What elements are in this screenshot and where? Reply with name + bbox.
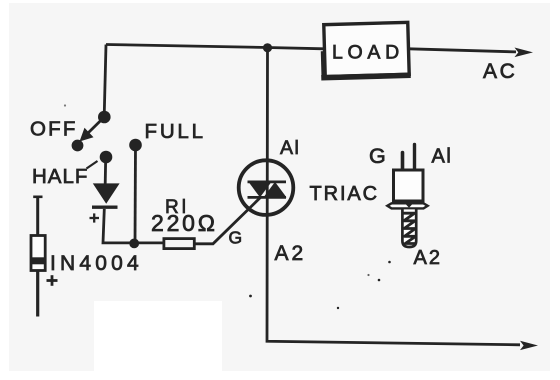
svg-text:G: G [229, 228, 243, 248]
svg-text:TRIAC: TRIAC [310, 183, 380, 205]
svg-text:A2: A2 [275, 242, 307, 265]
svg-text:A2: A2 [414, 247, 442, 269]
svg-text:HALF: HALF [32, 165, 88, 188]
svg-text:OFF: OFF [30, 117, 78, 140]
svg-text:Al: Al [280, 137, 300, 159]
svg-text:G: G [369, 144, 386, 168]
svg-text:AC: AC [483, 60, 517, 83]
svg-text:LOAD: LOAD [332, 42, 404, 64]
svg-text:IN4004: IN4004 [50, 252, 143, 275]
svg-text:FULL: FULL [145, 120, 206, 143]
svg-text:Al: Al [432, 146, 453, 168]
svg-text:220Ω: 220Ω [151, 210, 218, 236]
